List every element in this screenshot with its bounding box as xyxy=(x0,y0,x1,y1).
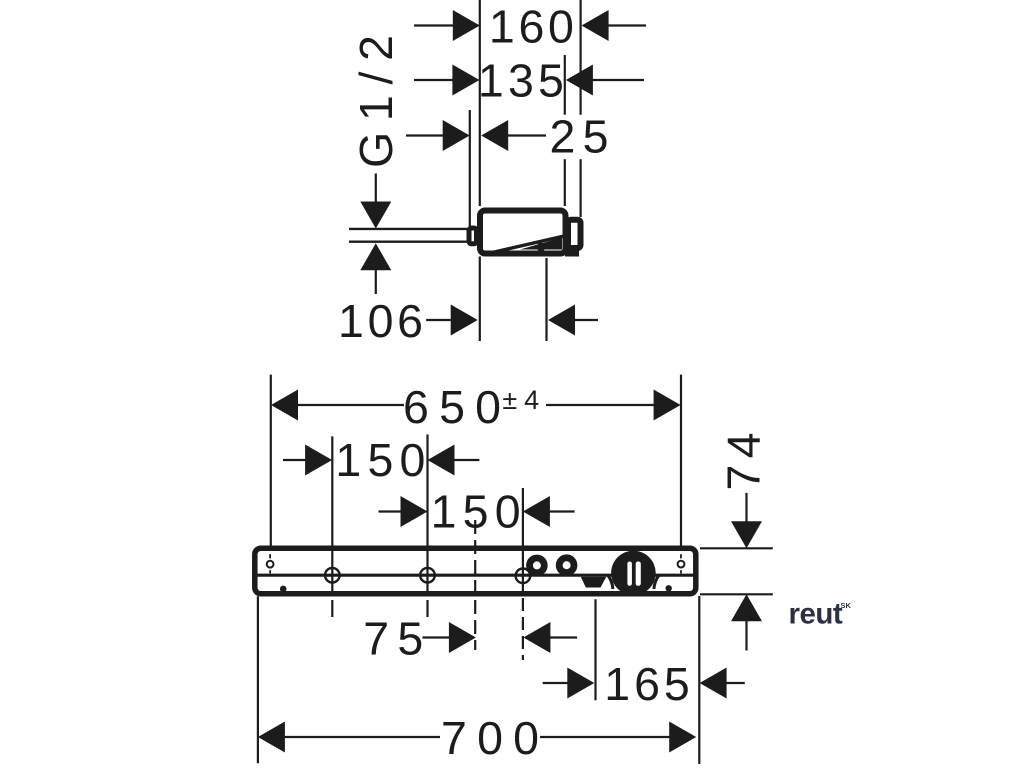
hole centreline 3 (x=522.9) xyxy=(522,488,524,591)
right small rivet dot xyxy=(666,585,672,591)
thermostat knob xyxy=(611,551,656,596)
right end fixing screw circle xyxy=(678,561,685,568)
hole centreline 2 (x=427.5) xyxy=(426,435,428,592)
svg-text:165: 165 xyxy=(604,658,690,710)
extension line 165 left (x=595.5) xyxy=(594,599,596,700)
dimension 160 xyxy=(414,1,646,53)
left end fixing screw circle xyxy=(267,561,274,568)
inlet tab on valve left xyxy=(469,228,477,244)
diagonal lever inside valve body xyxy=(484,236,565,255)
dimension 165 xyxy=(543,658,745,710)
svg-text:SK: SK xyxy=(841,601,852,610)
mounting hole 2 xyxy=(420,568,435,583)
extension line: right of 160 dim (x=580.6) xyxy=(579,0,581,115)
dimension 700 xyxy=(258,712,696,764)
svg-text:650: 650 xyxy=(403,381,501,433)
svg-text:160: 160 xyxy=(489,1,574,53)
dimension 150 (second) xyxy=(379,486,575,538)
dimension 150 (first) xyxy=(283,434,479,486)
extension line bar top right (y=548.3) xyxy=(700,547,773,549)
brand logo reut xyxy=(789,598,852,631)
G1/2 pipe dimension arrows xyxy=(360,174,391,295)
extension line 650 right (x=681) xyxy=(680,375,682,546)
dimension 74 upper arrow xyxy=(731,493,762,548)
outlet nub (trapezoid) xyxy=(581,577,607,588)
bar centreline dashed (x=475.2) xyxy=(474,520,476,650)
extension line below valve left (x=479.8) xyxy=(479,257,481,342)
svg-text:reut: reut xyxy=(789,598,843,631)
extension line 650 left (x=270.8) xyxy=(270,375,272,546)
escutcheon arc left xyxy=(608,575,613,589)
mounting hole 3 xyxy=(516,569,531,584)
extension line below valve right (x=546.5) xyxy=(545,258,547,341)
connection ring 1 xyxy=(530,558,545,573)
extension line: left of 25 dim (x=469.8) xyxy=(469,110,471,228)
svg-text:150: 150 xyxy=(335,434,425,486)
mounting hole 1 xyxy=(325,568,340,583)
dimension 650 +/-4 xyxy=(271,381,681,433)
extension line: left of 160/135 dims (x=479.8) xyxy=(479,0,481,206)
extension line bar bottom right (y=594.3) xyxy=(700,593,773,595)
extension line 700 left (x=257.9) xyxy=(257,596,259,763)
extension line: right of 135 dim (x=564.8) xyxy=(564,55,566,115)
dimension 135 xyxy=(414,55,644,107)
svg-text:135: 135 xyxy=(478,55,564,107)
hole centreline 1 (x=332.3) xyxy=(331,436,333,591)
supply pipe (double line) xyxy=(349,228,467,230)
connection ring 2 xyxy=(559,558,574,573)
valve body (side view) xyxy=(480,211,566,254)
left small rivet dot xyxy=(280,586,287,593)
svg-text:106: 106 xyxy=(338,295,423,347)
shower bar outer body (front view) xyxy=(255,548,696,594)
dimension 75 xyxy=(363,613,577,665)
port foot xyxy=(565,249,579,257)
svg-text:700: 700 xyxy=(441,712,539,764)
extension line 165/700 right (x=699.3) xyxy=(698,596,700,764)
escutcheon arc right xyxy=(654,575,659,589)
dimension 106 xyxy=(338,295,598,347)
dimension 25 xyxy=(406,111,609,163)
bar mid seam line xyxy=(257,574,694,577)
dimension 74 lower arrow xyxy=(731,594,762,650)
svg-text:G1/2: G1/2 xyxy=(350,35,402,168)
outlet port on valve right xyxy=(568,220,581,248)
